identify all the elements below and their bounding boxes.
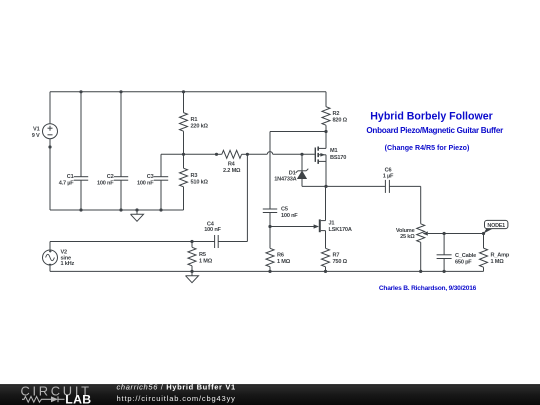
svg-text:LAB: LAB <box>65 392 91 405</box>
svg-text:R_Amp: R_Amp <box>491 253 510 259</box>
svg-text:(Change R4/R5 for Piezo): (Change R4/R5 for Piezo) <box>385 144 470 152</box>
svg-text:220 kΩ: 220 kΩ <box>191 124 209 130</box>
svg-text:Volume: Volume <box>396 228 415 234</box>
svg-text:NODE1: NODE1 <box>487 223 505 229</box>
svg-text:C_Cable: C_Cable <box>455 253 476 259</box>
svg-text:charrich56 / Hybrid Buffer V1: charrich56 / Hybrid Buffer V1 <box>117 383 236 392</box>
svg-text:25 kΩ: 25 kΩ <box>400 234 415 240</box>
svg-text:Hybrid Borbely Follower: Hybrid Borbely Follower <box>370 111 492 123</box>
svg-text:C1: C1 <box>67 174 74 180</box>
svg-text:V1: V1 <box>33 127 40 133</box>
svg-text:C5: C5 <box>281 207 288 213</box>
svg-text:100 nF: 100 nF <box>204 227 221 233</box>
svg-text:J1: J1 <box>329 220 335 226</box>
svg-text:1 MΩ: 1 MΩ <box>491 259 505 265</box>
svg-text:LSK170A: LSK170A <box>329 227 352 233</box>
svg-text:R7: R7 <box>333 252 340 258</box>
svg-text:9 V: 9 V <box>32 133 40 139</box>
svg-text:4.7 µF: 4.7 µF <box>59 180 75 186</box>
svg-text:R3: R3 <box>191 173 198 179</box>
svg-text:R1: R1 <box>191 117 198 123</box>
svg-text:1 kHz: 1 kHz <box>61 261 75 267</box>
svg-text:100 nF: 100 nF <box>97 180 114 186</box>
svg-text:Charles B. Richardson, 9/30/20: Charles B. Richardson, 9/30/2016 <box>379 285 477 292</box>
svg-text:R6: R6 <box>277 252 284 258</box>
svg-text:100 nF: 100 nF <box>137 180 154 186</box>
svg-text:D1: D1 <box>289 170 296 176</box>
svg-text:C2: C2 <box>107 174 114 180</box>
svg-text:650 pF: 650 pF <box>455 259 472 265</box>
svg-text:750 Ω: 750 Ω <box>333 259 348 265</box>
svg-text:R2: R2 <box>333 111 340 117</box>
svg-text:820 Ω: 820 Ω <box>333 117 348 123</box>
svg-text:1 MΩ: 1 MΩ <box>277 259 291 265</box>
svg-text:1 µF: 1 µF <box>383 174 394 180</box>
svg-text:C3: C3 <box>147 174 154 180</box>
svg-text:510 kΩ: 510 kΩ <box>191 179 209 185</box>
svg-text:2.2 MΩ: 2.2 MΩ <box>223 168 241 174</box>
svg-text:BS170: BS170 <box>330 155 346 161</box>
svg-text:M1: M1 <box>330 148 337 154</box>
svg-text:1N4733A: 1N4733A <box>274 177 296 183</box>
svg-text:Onboard Piezo/Magnetic Guitar: Onboard Piezo/Magnetic Guitar Buffer <box>366 126 504 135</box>
svg-text:R5: R5 <box>199 252 206 258</box>
svg-text:C6: C6 <box>385 167 392 173</box>
svg-text:100 nF: 100 nF <box>281 213 298 219</box>
svg-text:R4: R4 <box>228 162 236 168</box>
svg-text:http://circuitlab.com/cbg43yy: http://circuitlab.com/cbg43yy <box>117 394 236 403</box>
svg-text:1 MΩ: 1 MΩ <box>199 258 213 264</box>
